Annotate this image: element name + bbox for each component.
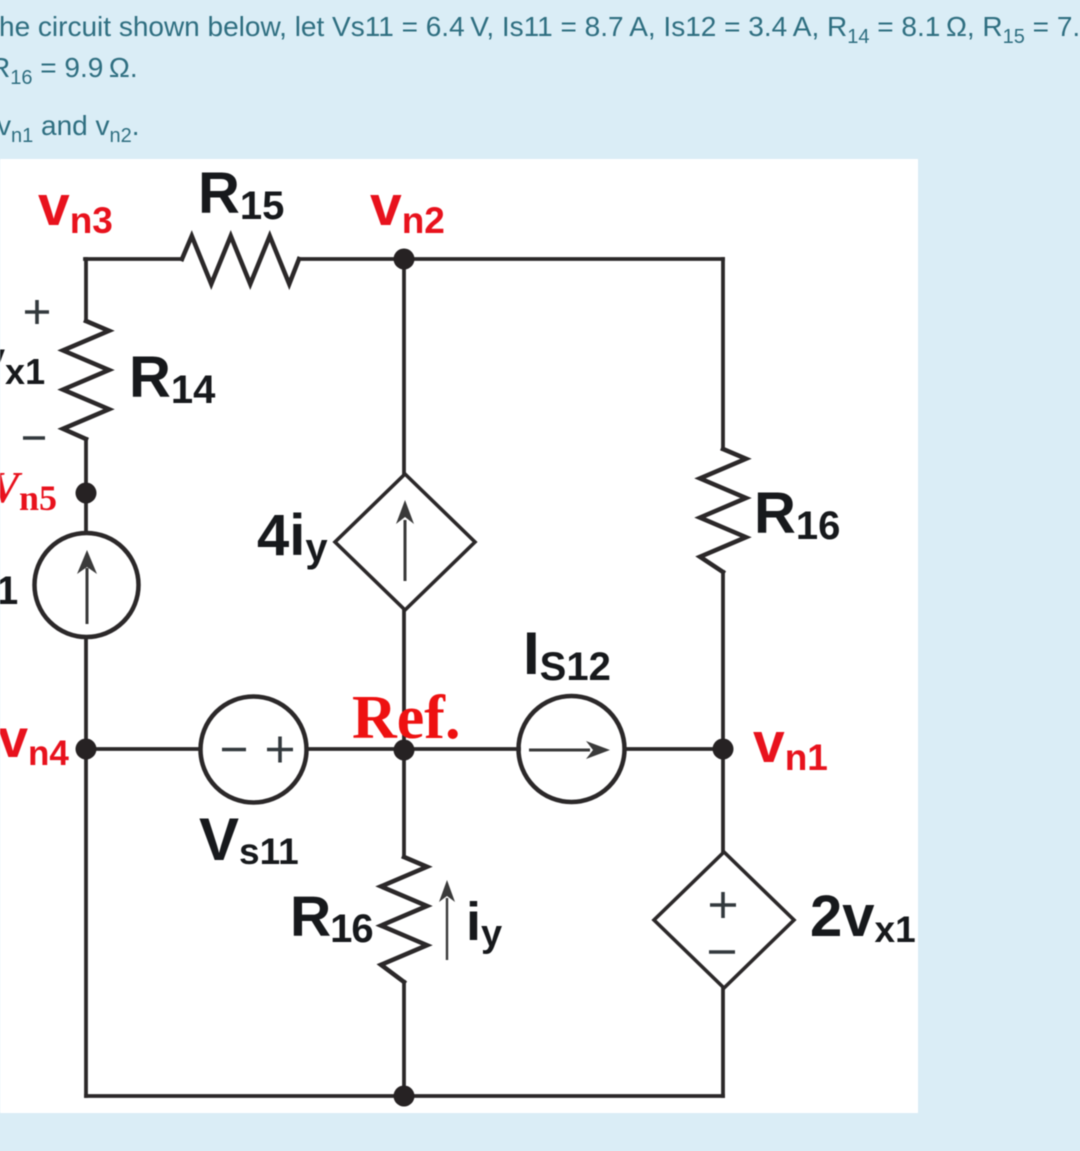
problem statement line 2 [0, 52, 138, 84]
wire top-left to R15 [85, 257, 182, 261]
node Ref dot [394, 740, 415, 761]
problem statement line 1 [0, 11, 1080, 43]
arrow inside Is12 [529, 749, 590, 752]
arrow inside 4iy [404, 520, 407, 581]
arrow iy [446, 898, 448, 960]
wire right vertical upper [721, 259, 725, 449]
node Vn5 dot [76, 483, 97, 504]
dependent source diamond 2vx1 [654, 852, 794, 988]
white circuit canvas [0, 159, 918, 1113]
resistor R16 right [700, 449, 746, 572]
wire center top [402, 259, 406, 474]
plus sign vx1 [25, 300, 49, 324]
wire center lower [402, 982, 406, 1096]
plus sign inside 2vx1 [710, 892, 736, 918]
bottom node dot [394, 1086, 415, 1107]
resistor R16 middle [381, 857, 427, 982]
wire Vs11 to Ref node [307, 747, 519, 751]
arrow inside Is11 [86, 568, 89, 624]
resistor R14 [63, 321, 109, 439]
problem statement line 3 [0, 110, 140, 142]
plus sign inside Vs11 [267, 737, 293, 763]
current source Is12 [519, 696, 625, 802]
current source Is11 [35, 533, 139, 637]
wire left vertical upper [84, 259, 88, 321]
minus sign inside Vs11 [222, 748, 246, 752]
bottom wire [86, 1094, 723, 1098]
svg-text:n5: n5 [19, 478, 57, 518]
wire Is11 to bottom-left corner [84, 637, 88, 1096]
node Vn1 dot [713, 739, 734, 760]
wire Is12 to node Vn1 [625, 747, 723, 751]
wire right vertical middle [721, 572, 725, 852]
wire center diamond to mid [402, 610, 406, 857]
node Vn4 dot [76, 739, 97, 760]
dependent source diamond 4iy [335, 474, 475, 610]
minus sign inside 2vx1 [709, 950, 735, 954]
wire right vertical lower [721, 988, 725, 1096]
minus sign vx1 [23, 436, 45, 440]
wire R15 to right corner [299, 257, 723, 261]
wire mid horizontal left [86, 747, 200, 751]
wire R14 to node Vn5 [84, 439, 88, 533]
resistor R15 [182, 236, 299, 284]
voltage source Vs11 [201, 697, 307, 803]
svg-text:Ref.: Ref. [352, 684, 460, 752]
node Vn2 dot [394, 249, 415, 270]
